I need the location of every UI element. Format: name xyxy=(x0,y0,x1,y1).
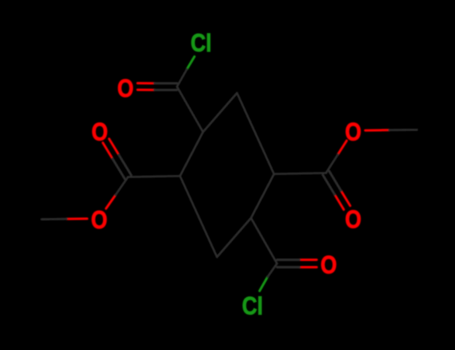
double bond C10=O6 dark half xyxy=(277,266,300,268)
double bond C9=O5 red half xyxy=(335,195,344,210)
bond C10-Cl2 dark half xyxy=(268,264,278,278)
double bond C8=O2 red half xyxy=(109,139,119,155)
bond O4-C9 colored half xyxy=(338,141,347,155)
wire ring edge E-SE xyxy=(251,174,274,218)
wire ring edge NW-N xyxy=(203,93,237,132)
svg-text:O: O xyxy=(345,207,361,234)
svg-text:O: O xyxy=(91,208,107,235)
bond O3-C8 colored half xyxy=(106,195,115,208)
double bond C9=O5 dark half xyxy=(329,171,341,191)
bond O4-CH3 right dark half xyxy=(389,129,417,131)
wire bond ring-E to ester C9 xyxy=(274,173,326,174)
svg-text:Cl: Cl xyxy=(191,30,212,57)
bond O4-CH3 right colored half xyxy=(365,129,389,132)
double bond C7=O1 dark half xyxy=(154,89,177,91)
double bond C9=O5 red half xyxy=(341,191,350,206)
wire bond ring-SE to acyl C10 xyxy=(251,218,277,264)
double bond C9=O5 dark half xyxy=(323,175,335,195)
double bond C10=O6 dark half xyxy=(277,259,300,261)
wire ring edge SE-S xyxy=(217,218,251,257)
svg-text:O: O xyxy=(117,76,133,103)
wire bond ring-W to ester C8 xyxy=(128,176,180,177)
svg-text:Cl: Cl xyxy=(242,294,263,321)
wire ring edge S-W xyxy=(180,176,217,257)
double bond C8=O2 dark half xyxy=(119,155,132,176)
wire ring edge N-E xyxy=(237,93,274,174)
double bond C7=O1 red half xyxy=(138,89,155,91)
bond O4-C9 dark half xyxy=(326,154,338,173)
double bond C10=O6 red half xyxy=(300,259,317,261)
double bond C7=O1 red half xyxy=(138,82,155,84)
double bond C8=O2 red half xyxy=(103,143,113,159)
double bond C8=O2 dark half xyxy=(112,159,124,179)
double bond C10=O6 red half xyxy=(300,266,317,268)
svg-text:O: O xyxy=(345,120,361,147)
bond C7-Cl1 green half xyxy=(187,57,195,70)
wire ring edge W-NW xyxy=(180,132,203,176)
svg-text:O: O xyxy=(321,253,337,280)
bond O3-C8 dark half xyxy=(115,177,128,195)
double bond C7=O1 dark half xyxy=(154,82,177,84)
bond O3-CH3 left dark half xyxy=(42,218,67,221)
bond O3-CH3 left colored half xyxy=(67,218,87,221)
wire bond ring-NW to acyl C7 xyxy=(177,87,203,132)
bond C7-Cl1 dark half xyxy=(177,69,187,87)
bond C10-Cl2 green half xyxy=(260,277,268,291)
svg-text:O: O xyxy=(92,120,108,147)
